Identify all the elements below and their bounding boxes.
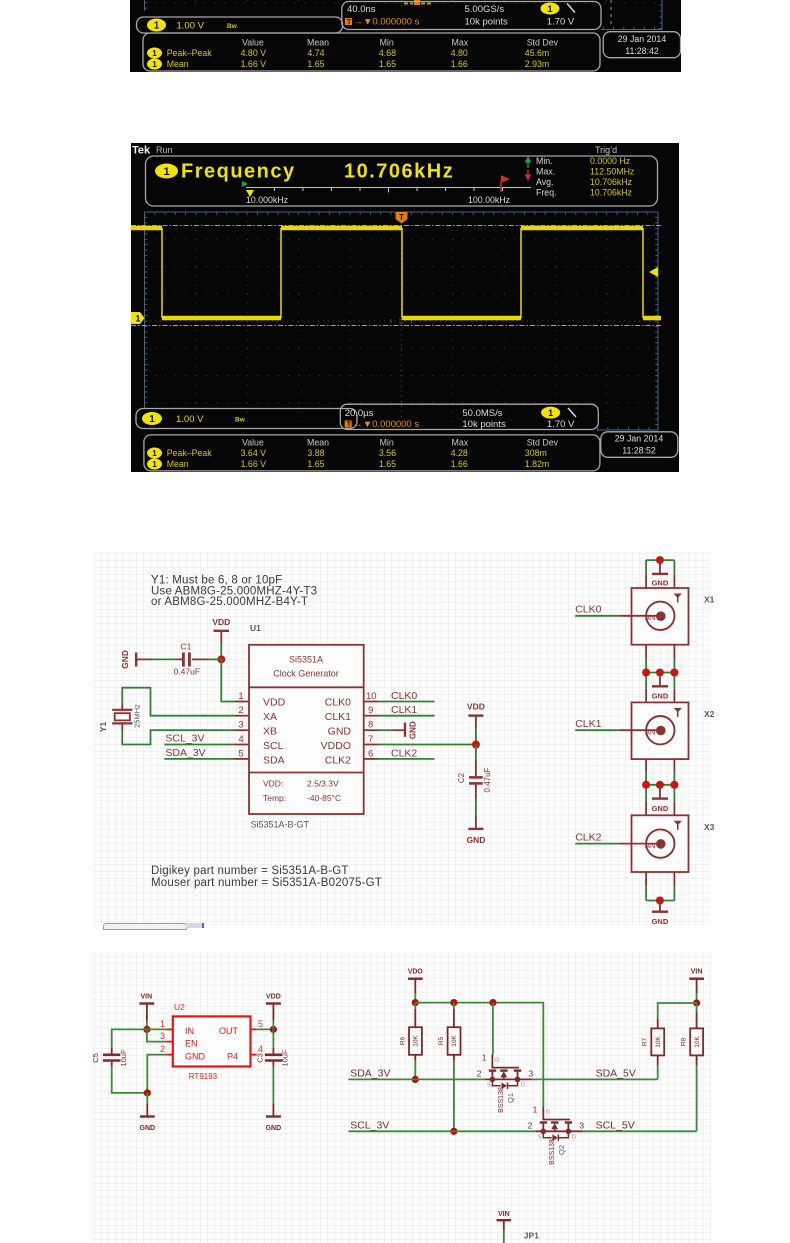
svg-text:0.0000 Hz: 0.0000 Hz [590, 156, 630, 166]
svg-text:5: 5 [258, 1019, 263, 1029]
svg-text:Q1: Q1 [506, 1093, 515, 1103]
trigger level arrow right [649, 267, 658, 277]
svg-text:GND: GND [652, 579, 669, 588]
svg-text:Mouser part number = Si5351A-B: Mouser part number = Si5351A-B02075-GT [151, 877, 382, 889]
junction dot rail R6 [412, 999, 419, 1006]
trigger position marker [396, 212, 408, 224]
transistor Q2 BSS138 [528, 1055, 585, 1165]
svg-text:VDO: VDO [408, 969, 424, 976]
pin stubs right 10-6 [364, 702, 379, 759]
svg-text:GND: GND [120, 650, 130, 669]
svg-text:Digikey part number = Si5351A-: Digikey part number = Si5351A-B-GT [151, 865, 349, 877]
svg-text:1: 1 [152, 49, 157, 58]
svg-text:4.80: 4.80 [451, 48, 468, 58]
svg-text:SCL_5V: SCL_5V [596, 1119, 635, 1131]
svg-text:3: 3 [238, 720, 243, 731]
wire SDA_5V [532, 1078, 658, 1080]
svg-text:3: 3 [160, 1031, 165, 1041]
wire junction to pin1 [221, 659, 234, 701]
svg-text:-40-85°C: -40-85°C [307, 793, 341, 803]
wire VIN to junction [146, 1021, 148, 1030]
svg-text:Q2: Q2 [557, 1145, 566, 1155]
svg-text:11:28:52: 11:28:52 [622, 446, 656, 456]
svg-text:40.0ns: 40.0ns [347, 4, 376, 15]
svg-text:1: 1 [152, 460, 157, 469]
svg-text:100.00kHz: 100.00kHz [468, 195, 510, 205]
svg-text:GND: GND [409, 721, 418, 739]
svg-text:4: 4 [258, 1044, 263, 1054]
wire C5 to GND node [111, 1062, 113, 1067]
ground below C2 [466, 829, 485, 845]
measurements box [143, 33, 600, 71]
wire GND pin 2 to ground node [147, 1055, 166, 1093]
svg-text:CLK2: CLK2 [325, 755, 351, 767]
svg-text:10uF: 10uF [281, 1049, 290, 1067]
svg-text:R8: R8 [680, 1037, 687, 1046]
svg-text:10.706kHz: 10.706kHz [590, 177, 632, 187]
input fragment at bottom of schematic 1 [103, 923, 187, 931]
svg-text:1: 1 [149, 414, 155, 425]
svg-text:Run: Run [156, 145, 173, 155]
svg-text:SDA_3V: SDA_3V [350, 1067, 390, 1079]
channel 1 marker [131, 312, 145, 324]
channel status box [136, 409, 357, 429]
svg-text:G: G [495, 1058, 499, 1064]
svg-text:CLK2: CLK2 [391, 747, 417, 759]
wire OUT pin 5 to VDD [257, 1028, 274, 1030]
svg-text:G: G [546, 1109, 550, 1115]
svg-text:0.47uF: 0.47uF [174, 667, 200, 677]
svg-text:10uF: 10uF [119, 1049, 128, 1067]
svg-text:1: 1 [136, 314, 141, 324]
resistor R7 10K [642, 1018, 665, 1079]
net label CLK0 [379, 690, 435, 702]
ground at pin 8 [379, 721, 418, 739]
svg-text:GND: GND [652, 804, 669, 813]
svg-text:10.706kHz: 10.706kHz [590, 188, 632, 198]
junction dot VDDO rail [472, 741, 480, 749]
svg-text:Std Dev: Std Dev [527, 38, 559, 48]
wire VDO rail [415, 1003, 543, 1055]
svg-text:D: D [521, 1083, 525, 1089]
wire junction to C2 [475, 745, 477, 760]
wire crystal bottom to XB (pin3) [121, 723, 123, 730]
svg-text:→▼0.000000 s: →▼0.000000 s [354, 17, 420, 28]
svg-text:11:28:42: 11:28:42 [625, 46, 659, 56]
svg-text:RT9193: RT9193 [189, 1072, 218, 1081]
graticule sliver [145, 0, 663, 30]
svg-text:1.00 V: 1.00 V [176, 414, 204, 425]
svg-text:Min.: Min. [536, 156, 553, 166]
svg-text:1: 1 [548, 408, 553, 418]
svg-text:Bw: Bw [235, 417, 246, 424]
svg-text:3.88: 3.88 [307, 448, 324, 458]
svg-text:R6: R6 [400, 1036, 407, 1045]
svg-text:VIN: VIN [140, 994, 152, 1001]
svg-text:Frequency: Frequency [181, 161, 296, 183]
svg-text:S: S [487, 1083, 491, 1089]
svg-text:2.93m: 2.93m [525, 59, 549, 69]
svg-text:10K: 10K [655, 1036, 662, 1048]
svg-text:C2: C2 [457, 772, 466, 783]
svg-text:CLK0: CLK0 [325, 697, 351, 709]
svg-text:4.28: 4.28 [451, 448, 468, 458]
svg-text:OUT: OUT [219, 1026, 239, 1036]
horizontal/trigger status box [340, 404, 598, 430]
svg-text:AN: AN [645, 727, 655, 736]
capacitor C5 10uF [91, 1049, 128, 1067]
svg-text:SDA_3V: SDA_3V [165, 747, 205, 759]
svg-text:5: 5 [238, 748, 243, 759]
ground between X1 and X2 [652, 673, 669, 701]
svg-text:45.6m: 45.6m [525, 48, 549, 58]
supply VIN (right) [689, 969, 704, 994]
svg-text:10: 10 [366, 691, 377, 702]
svg-text:20.0µs: 20.0µs [345, 408, 374, 419]
svg-text:3.64 V: 3.64 V [241, 448, 267, 458]
graticule [145, 212, 659, 430]
svg-text:Mean: Mean [307, 38, 329, 48]
wire GND to C1 [136, 658, 152, 660]
ground below C3 [266, 1117, 282, 1133]
svg-text:SDA: SDA [263, 755, 285, 767]
channel status box [137, 17, 343, 33]
svg-text:25MHz: 25MHz [133, 704, 142, 728]
net label SCL_3V [348, 1119, 535, 1131]
svg-text:2.5/3.3V: 2.5/3.3V [307, 779, 339, 789]
svg-text:VDDO: VDDO [321, 740, 351, 752]
svg-text:2: 2 [238, 705, 243, 716]
svg-text:112.50MHz: 112.50MHz [590, 167, 634, 177]
wire junction to C5 [112, 1029, 147, 1048]
svg-text:Min: Min [380, 437, 394, 447]
svg-text:Bw: Bw [227, 23, 238, 30]
svg-text:SDA_5V: SDA_5V [596, 1067, 636, 1079]
svg-text:1.82m: 1.82m [525, 459, 549, 469]
svg-text:T: T [399, 213, 404, 222]
svg-text:10K: 10K [694, 1036, 701, 1048]
junction dot below X3 [656, 897, 664, 905]
wire to R7 [658, 1003, 697, 1018]
resistor R8 10K [680, 1028, 703, 1131]
junction dot SDA/R6 [412, 1076, 419, 1083]
svg-text:1: 1 [547, 4, 552, 14]
svg-text:VDD: VDD [266, 994, 281, 1001]
svg-text:10.706kHz: 10.706kHz [344, 161, 454, 183]
transistor U2 RT9193 box [173, 1002, 251, 1081]
svg-text:P4: P4 [227, 1051, 238, 1061]
svg-text:GND: GND [266, 1125, 282, 1132]
svg-text:EN: EN [185, 1038, 198, 1048]
svg-text:Clock Generator: Clock Generator [273, 669, 339, 679]
wires below X3 [646, 872, 674, 901]
junction dot SCL/R5 [450, 1128, 457, 1135]
svg-text:2: 2 [160, 1044, 165, 1054]
waveform reference dash-dot lines [131, 225, 661, 227]
wire SCL_5V [582, 1130, 696, 1132]
ground below X3 [652, 901, 669, 926]
svg-text:1.00 V: 1.00 V [177, 21, 205, 32]
svg-text:R7: R7 [642, 1037, 649, 1046]
svg-text:Std Dev: Std Dev [527, 437, 559, 447]
wire VDD to C3 [272, 1029, 274, 1048]
svg-text:Max: Max [452, 38, 469, 48]
svg-text:X2: X2 [704, 709, 715, 719]
wires above X1 [646, 560, 674, 588]
resistor R6 10K [400, 1003, 422, 1080]
date box [601, 432, 678, 458]
svg-text:308m: 308m [525, 448, 547, 458]
svg-text:Freq.: Freq. [536, 188, 557, 198]
svg-text:9: 9 [368, 705, 373, 716]
svg-text:1.66: 1.66 [451, 459, 468, 469]
capacitor C1 0.47uF [174, 642, 200, 677]
svg-text:AN: AN [645, 841, 655, 850]
BNC X2 [632, 702, 715, 759]
supply VDO (mid rail) [408, 969, 424, 994]
svg-text:R5: R5 [438, 1036, 445, 1045]
wire VIN to R8 [696, 1003, 698, 1011]
svg-text:Max.: Max. [536, 167, 555, 177]
wire VDDO pin7 to VDD rail [379, 744, 476, 746]
svg-text:0.47uF: 0.47uF [483, 767, 492, 792]
svg-text:JP1: JP1 [524, 1231, 539, 1241]
svg-text:1: 1 [482, 1053, 487, 1063]
svg-text:Trig’d: Trig’d [595, 145, 617, 155]
svg-text:4.74: 4.74 [307, 48, 324, 58]
svg-text:Tek: Tek [132, 145, 151, 157]
wire VDO to rail [414, 993, 416, 1002]
graticule bottom right corner [601, 29, 662, 31]
svg-text:VDD: VDD [263, 697, 286, 709]
svg-text:IN: IN [185, 1026, 194, 1036]
svg-text:X1: X1 [704, 595, 715, 605]
svg-text:1.65: 1.65 [307, 59, 324, 69]
svg-text:Peak–Peak: Peak–Peak [167, 448, 213, 458]
svg-text:D: D [572, 1134, 576, 1140]
BNC X3 [632, 815, 715, 872]
junction dot GND node [144, 1089, 151, 1096]
svg-text:VDD: VDD [467, 702, 485, 712]
junction dot rail R5 [450, 999, 457, 1006]
svg-text:VDD:: VDD: [263, 779, 283, 789]
svg-text:CLK1: CLK1 [575, 718, 601, 730]
junction dot VIN rail [693, 999, 700, 1006]
ground below left [140, 1093, 156, 1132]
junction dot rail Q1 gate [489, 999, 496, 1006]
supply VDD (regulator out) [266, 994, 281, 1030]
supply VIN (left) [139, 994, 154, 1021]
net label CLK2 [379, 747, 435, 759]
svg-text:T: T [347, 19, 352, 26]
capacitor C2 0.47uF [457, 767, 492, 792]
svg-text:GND: GND [328, 726, 352, 738]
svg-text:1.70 V: 1.70 V [547, 419, 575, 430]
svg-text:or ABM8G-25.000MHZ-B4Y-T: or ABM8G-25.000MHZ-B4Y-T [151, 596, 308, 608]
svg-text:6: 6 [368, 748, 373, 759]
svg-text:1.66 V: 1.66 V [241, 459, 267, 469]
svg-text:VDD: VDD [212, 617, 230, 627]
ground between X2 and X3 [652, 785, 669, 813]
junction dots between X2 and X3 [642, 781, 650, 789]
junction dot VIN node [143, 1026, 150, 1033]
svg-text:XB: XB [263, 726, 277, 738]
svg-text:1: 1 [152, 60, 157, 69]
junction dot VDD out [270, 1026, 277, 1033]
svg-text:U2: U2 [174, 1002, 185, 1012]
wire VIN to junction [696, 993, 698, 1003]
transistor Q1 BSS138 [477, 1003, 534, 1113]
pin stubs U2 [167, 1029, 257, 1054]
svg-text:GND: GND [466, 835, 485, 845]
wire VIN junction to pin 1 [147, 1028, 167, 1030]
svg-text:1.65: 1.65 [379, 59, 396, 69]
svg-text:1.65: 1.65 [307, 459, 324, 469]
svg-text:29 Jan 2014: 29 Jan 2014 [615, 434, 664, 444]
svg-text:CLK0: CLK0 [391, 690, 417, 702]
horizontal/trigger status box [342, 2, 601, 30]
svg-text:C1: C1 [181, 642, 192, 652]
svg-text:8: 8 [368, 720, 373, 731]
BNC X1 [632, 588, 715, 645]
svg-text:Value: Value [242, 437, 264, 447]
svg-text:1: 1 [154, 21, 160, 32]
net label CLK2 at X3 [575, 831, 660, 843]
svg-text:BSS138: BSS138 [498, 1087, 505, 1113]
svg-text:Peak–Peak: Peak–Peak [167, 48, 213, 58]
svg-text:1.70 V: 1.70 V [547, 17, 575, 28]
svg-text:4.68: 4.68 [379, 48, 396, 58]
svg-text:SCL: SCL [263, 740, 284, 752]
net label SDA_3V [164, 747, 234, 759]
wire crystal top to XA (pin2) [121, 704, 123, 710]
svg-text:1: 1 [238, 691, 243, 702]
svg-text:10k points: 10k points [462, 419, 506, 430]
net label CLK0 at X1 [575, 604, 660, 616]
svg-text:Avg.: Avg. [536, 177, 553, 187]
svg-text:4.80 V: 4.80 V [241, 48, 267, 58]
svg-text:10.000kHz: 10.000kHz [246, 195, 288, 205]
ground GND (left of C1) [120, 650, 136, 669]
svg-text:Mean: Mean [167, 59, 189, 69]
svg-text:50.0MS/s: 50.0MS/s [462, 408, 502, 419]
svg-text:T: T [347, 422, 352, 429]
ground above X1 [652, 560, 669, 587]
freq scale line [246, 187, 531, 189]
op-amp U1 Si5351A box [249, 623, 364, 830]
svg-text:VIN: VIN [498, 1211, 510, 1218]
svg-text:1: 1 [533, 1104, 538, 1114]
svg-text:Value: Value [242, 38, 264, 48]
svg-text:VIN: VIN [691, 969, 703, 976]
svg-text:Y1: Y1 [98, 722, 108, 733]
svg-text:1.65: 1.65 [379, 459, 396, 469]
pin stubs left 1-5 [235, 702, 250, 759]
frequency box [146, 156, 658, 206]
svg-text:10k points: 10k points [465, 17, 509, 28]
svg-text:U1: U1 [250, 623, 261, 633]
net label SCL_3V [164, 733, 234, 745]
svg-text:3: 3 [579, 1120, 584, 1130]
svg-text:C3: C3 [256, 1053, 265, 1063]
wire VDD to junction [220, 644, 222, 659]
svg-text:CLK1: CLK1 [391, 704, 417, 716]
svg-text:5.00GS/s: 5.00GS/s [465, 4, 505, 15]
svg-text:BSS138: BSS138 [549, 1139, 556, 1165]
svg-text:CLK2: CLK2 [575, 831, 601, 843]
wire to junction [475, 729, 477, 745]
svg-text:Mean: Mean [307, 437, 329, 447]
wire C2 to GND [475, 785, 477, 800]
svg-text:→▼0.000000 s: →▼0.000000 s [353, 419, 419, 430]
svg-text:C5: C5 [92, 1053, 100, 1063]
note text Y1 [151, 575, 317, 608]
svg-text:29 Jan 2014: 29 Jan 2014 [618, 34, 667, 44]
supply VDD (right rail) [467, 702, 485, 730]
svg-text:AN: AN [645, 613, 655, 622]
svg-text:10K: 10K [413, 1035, 420, 1047]
svg-text:2: 2 [528, 1120, 533, 1130]
svg-text:SCL_3V: SCL_3V [165, 733, 204, 745]
waveform [131, 228, 661, 318]
svg-text:3.56: 3.56 [379, 448, 396, 458]
supply VDD (left) [212, 617, 230, 644]
svg-text:1: 1 [160, 1019, 165, 1029]
svg-text:Mean: Mean [167, 459, 189, 469]
svg-text:7: 7 [368, 734, 373, 745]
svg-text:S: S [538, 1134, 542, 1140]
svg-text:1.66 V: 1.66 V [241, 59, 267, 69]
svg-text:X3: X3 [704, 822, 715, 832]
junction dot above X1 [656, 556, 664, 564]
wire C3 to ground [272, 1062, 274, 1067]
svg-text:XA: XA [263, 711, 277, 723]
note Digikey/Mouser [151, 865, 382, 889]
junction dot at C1/VDD [217, 655, 225, 663]
net label CLK1 at X2 [575, 718, 660, 730]
svg-text:1.66: 1.66 [451, 59, 468, 69]
svg-text:Si5351A: Si5351A [289, 655, 323, 665]
net label SDA_3V [348, 1067, 484, 1079]
supply VIN (bottom) [497, 1211, 512, 1231]
svg-text:3: 3 [529, 1068, 534, 1078]
svg-text:Max: Max [452, 437, 469, 447]
svg-text:1: 1 [152, 449, 157, 458]
crystal Y1 25MHz [98, 704, 142, 732]
svg-text:Temp:: Temp: [263, 793, 286, 803]
measurements box [144, 435, 600, 471]
net label CLK1 [379, 704, 435, 716]
svg-text:GND: GND [652, 917, 669, 926]
resistor R5 10K [438, 1003, 461, 1132]
svg-text:CLK1: CLK1 [325, 711, 351, 723]
svg-text:CLK0: CLK0 [575, 604, 601, 616]
svg-text:10K: 10K [451, 1035, 458, 1047]
svg-text:Min: Min [380, 38, 394, 48]
junction dots between X1 and X2 [642, 669, 650, 677]
svg-text:GND: GND [652, 692, 669, 701]
capacitor C3 10uF [256, 1049, 290, 1067]
wire VIN down to JP1 [503, 1231, 505, 1243]
svg-text:2: 2 [477, 1068, 482, 1078]
svg-text:SCL_3V: SCL_3V [350, 1119, 389, 1131]
wire C1 to junction [192, 658, 208, 660]
svg-text:GND: GND [140, 1125, 156, 1132]
svg-text:GND: GND [185, 1051, 206, 1061]
date box [603, 32, 680, 58]
wires below X2 [646, 759, 674, 815]
svg-text:Si5351A-B-GT: Si5351A-B-GT [251, 820, 310, 830]
